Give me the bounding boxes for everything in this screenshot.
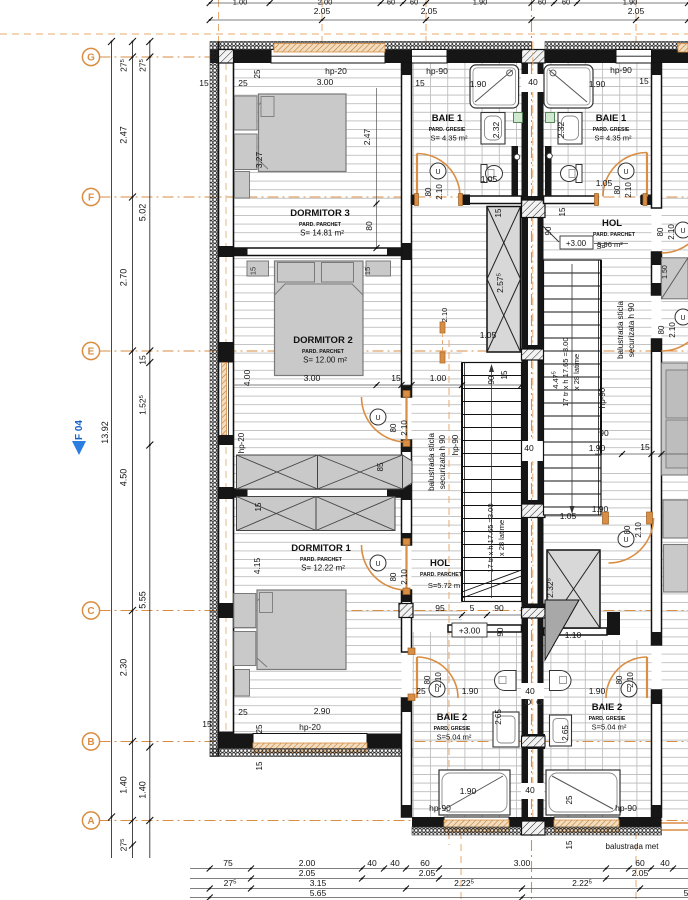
tick inner: [146, 817, 153, 824]
axis line B: [100, 741, 688, 743]
svg-text:F: F: [88, 193, 94, 204]
svg-text:x 28 latime: x 28 latime: [497, 520, 506, 556]
axis line A: [100, 820, 688, 822]
axis line F: [100, 196, 688, 198]
wall left cap mid: [219, 603, 234, 618]
wall top core right unit: [545, 50, 688, 64]
svg-text:U: U: [435, 169, 440, 176]
door dormitor 1: [362, 545, 407, 590]
furniture right lower: [663, 500, 688, 538]
wall cap left unit d2b: [402, 440, 412, 452]
svg-text:40: 40: [660, 858, 670, 868]
svg-text:3.00: 3.00: [317, 77, 334, 87]
door handle circle dormitor 2: [370, 409, 386, 425]
svg-text:DORMITOR 2: DORMITOR 2: [293, 335, 352, 346]
label hol right: [593, 218, 636, 249]
svg-text:PARD. GRESIE: PARD. GRESIE: [429, 127, 466, 133]
door baie1 right: [603, 153, 647, 197]
svg-text:1.90: 1.90: [470, 79, 487, 89]
wall cap left unit p1: [402, 243, 412, 260]
label baie 2 left: [434, 712, 472, 742]
wall baie1 right south: [544, 196, 652, 204]
floor baie 1 right: [544, 63, 652, 196]
svg-text:C: C: [87, 606, 94, 617]
svg-text:2.70: 2.70: [119, 269, 129, 287]
svg-text:15: 15: [640, 442, 650, 452]
wall baie2 south core: [412, 817, 662, 827]
tick top0: [207, 0, 213, 6]
svg-text:U: U: [623, 537, 628, 544]
label +3.00 right: [560, 236, 605, 251]
floor landing right lower: [544, 515, 602, 550]
party wall hatch b: [522, 349, 546, 360]
party wall junction band d: [522, 604, 546, 619]
svg-text:1.05: 1.05: [481, 174, 498, 184]
tick bot1: [436, 876, 442, 882]
void right triangle: [545, 600, 579, 660]
window hp-20 top lines: [271, 55, 385, 57]
svg-text:PARD. PARCHET: PARD. PARCHET: [300, 557, 343, 563]
wall partition d3 d2: [234, 248, 402, 256]
svg-text:60: 60: [538, 0, 546, 7]
svg-text:PARD. GRESIE: PARD. GRESIE: [434, 726, 471, 732]
svg-text:hp-90: hp-90: [598, 387, 607, 408]
axis line vertical center: [531, 0, 533, 900]
svg-text:60: 60: [410, 0, 418, 7]
wall bottom left insulation: [210, 749, 412, 757]
svg-text:80: 80: [364, 221, 374, 231]
svg-text:S=: S=: [597, 244, 606, 251]
tick bot0: [436, 866, 442, 872]
bathtub baie2 left: [439, 770, 510, 815]
cap baie2R north: [607, 612, 620, 635]
top dim line row1: [210, 19, 688, 21]
svg-text:BAIE 2: BAIE 2: [592, 702, 623, 713]
door labels baie1 right: [613, 182, 633, 198]
tick inner: [146, 54, 153, 61]
wardrobe row1 end: [403, 455, 413, 489]
svg-text:90: 90: [494, 603, 504, 613]
wall baie2 south insulation: [412, 827, 662, 835]
svg-text:U: U: [680, 228, 685, 235]
grid bubble E: [82, 342, 99, 359]
stair left break: [462, 570, 522, 598]
svg-text:5.02: 5.02: [138, 204, 148, 222]
cap p2 right: [387, 489, 402, 497]
svg-text:1.40: 1.40: [119, 776, 129, 794]
grid bubble G: [82, 48, 99, 65]
washbasin baie1 right: [558, 113, 582, 145]
tick bot2: [637, 886, 643, 892]
floor right rooms lower: [662, 468, 688, 818]
svg-text:B: B: [87, 737, 94, 748]
tick mid: [129, 38, 136, 45]
wall left corner top column: [219, 50, 234, 64]
svg-text:BAIE 2: BAIE 2: [437, 712, 468, 723]
wall bottom left core: [234, 734, 413, 749]
party wall junction band c: [522, 500, 546, 518]
svg-text:HOL: HOL: [602, 218, 622, 229]
sink baie2 right: [550, 715, 572, 746]
door handle circle dormitor 1: [370, 555, 386, 571]
svg-text:90: 90: [599, 428, 609, 438]
svg-text:17 tr x h 17.65 =3.00: 17 tr x h 17.65 =3.00: [561, 337, 570, 406]
svg-text:1.90: 1.90: [589, 686, 606, 696]
door stop circle left: [514, 154, 520, 160]
party wall left slab: [522, 63, 529, 835]
wall baie2 left north: [448, 625, 522, 632]
tick mid: [129, 348, 136, 355]
wall cap right unit g: [652, 632, 662, 645]
tick top1: [685, 17, 688, 23]
door frames dormitor 2: [403, 391, 410, 447]
svg-text:U: U: [375, 561, 380, 568]
stair left unit: [462, 363, 522, 602]
svg-text:2.05: 2.05: [314, 6, 331, 16]
tick bot0: [403, 866, 409, 872]
svg-text:hp-90: hp-90: [615, 803, 637, 813]
shower baie1 left: [470, 65, 519, 108]
door stop circle baie2 right: [537, 699, 542, 704]
label baie 1 left: [429, 113, 468, 143]
svg-text:15: 15: [255, 761, 264, 770]
toilet baie1 right: [561, 165, 583, 183]
balustrada text right: [598, 301, 636, 409]
svg-text:80: 80: [615, 675, 624, 684]
svg-text:2.32: 2.32: [556, 121, 566, 138]
svg-text:balustrada sticla: balustrada sticla: [427, 433, 436, 491]
party wall center line: [532, 42, 534, 836]
wall cap right unit b: [652, 283, 662, 295]
svg-text:A: A: [87, 816, 94, 827]
svg-text:1.90: 1.90: [589, 79, 606, 89]
svg-text:3.00: 3.00: [514, 858, 531, 868]
cap p1 left: [234, 248, 248, 256]
svg-text:2.10: 2.10: [668, 322, 677, 338]
wall interior vertical right unit: [652, 63, 662, 817]
tick inner: [146, 359, 153, 366]
svg-text:1.00: 1.00: [430, 373, 447, 383]
svg-text:securizata h 90: securizata h 90: [627, 302, 636, 357]
floor landing left: [412, 207, 488, 353]
grid bubble F: [82, 188, 99, 205]
grid bubble B: [82, 733, 99, 750]
svg-text:75: 75: [223, 858, 233, 868]
label baie 2 right: [589, 702, 627, 732]
svg-text:17 tr x h 17.65 =3.00: 17 tr x h 17.65 =3.00: [486, 503, 495, 572]
door labels right c: [623, 522, 643, 538]
grid bubble A: [82, 812, 99, 829]
wall cap left unit d1b: [402, 590, 412, 602]
label hol left: [420, 558, 463, 590]
svg-text:2.10: 2.10: [626, 672, 635, 688]
tick bot1: [603, 876, 609, 882]
left dim line outer: [111, 42, 113, 859]
svg-text:2.90: 2.90: [314, 706, 331, 716]
wall left core centerline: [225, 63, 227, 732]
wall cap left unit bot: [402, 805, 412, 817]
tick top1: [423, 17, 429, 23]
tick mid: [129, 817, 136, 824]
svg-text:15: 15: [391, 373, 401, 383]
tick top0: [551, 0, 557, 6]
wall baie1 left south: [412, 196, 522, 204]
axis line vertical left stub: [448, 340, 450, 845]
svg-text:1.90: 1.90: [460, 786, 477, 796]
svg-text:E: E: [88, 347, 95, 358]
svg-text:25: 25: [238, 707, 248, 717]
svg-text:80: 80: [389, 572, 398, 581]
svg-text:5.65: 5.65: [310, 888, 327, 898]
svg-text:2.05: 2.05: [419, 868, 436, 878]
door frame hol left a: [440, 322, 445, 333]
svg-text:2.00: 2.00: [299, 858, 316, 868]
bed dormitor 1: [234, 590, 346, 670]
wall cap left unit b2a: [402, 698, 412, 712]
svg-text:15: 15: [500, 370, 509, 379]
svg-text:60: 60: [562, 0, 570, 7]
door handle circle right b: [675, 309, 688, 325]
svg-text:2.10: 2.10: [440, 308, 449, 323]
svg-text:15: 15: [138, 355, 148, 365]
door baie1 left: [417, 154, 460, 197]
door handle circle baie 2 right: [621, 681, 637, 697]
svg-text:hp-90: hp-90: [451, 434, 460, 455]
wall cap left unit p2: [402, 485, 412, 500]
door labels right b: [657, 322, 677, 338]
bathtub baie2 right: [546, 770, 620, 815]
grid bubble C: [82, 602, 99, 619]
door labels dormitor 2: [389, 420, 409, 436]
window hp-20 top opening: [271, 50, 385, 64]
svg-text:U: U: [623, 169, 628, 176]
tick top0: [685, 0, 688, 6]
dim line mid right: [595, 451, 688, 457]
svg-text:40: 40: [367, 858, 377, 868]
door frames right corridor: [603, 512, 653, 524]
dim line interior d3: [376, 88, 378, 248]
party wall dim gap c: [521, 783, 544, 799]
window hp-20 bottom opening: [253, 734, 367, 749]
door frames dormitor 1: [403, 539, 410, 595]
floor hol left: [412, 352, 463, 625]
svg-text:PARD. PARCHET: PARD. PARCHET: [420, 572, 463, 578]
party wall dim gap a: [521, 441, 544, 461]
cap p1 right: [387, 248, 402, 256]
svg-text:2.47: 2.47: [119, 126, 129, 144]
window hp-90 baie1 right opening: [616, 50, 652, 64]
washbasin baie1 left: [481, 113, 505, 145]
door labels dormitor 1: [389, 569, 409, 585]
floor dormitor 1: [234, 497, 402, 734]
door right unit a: [662, 208, 688, 253]
party wall hatch e: [522, 821, 546, 835]
svg-text:15: 15: [415, 78, 425, 88]
svg-text:1.50: 1.50: [662, 265, 669, 279]
window left hp-90 orange band: [222, 363, 227, 436]
svg-text:securizata h 90: securizata h 90: [438, 434, 447, 489]
column top center hatch: [522, 50, 546, 64]
svg-text:hp-90: hp-90: [426, 66, 448, 76]
party wall right slab: [538, 63, 544, 835]
svg-text:S=5.04 m²: S=5.04 m²: [437, 733, 472, 742]
tick mid: [129, 54, 136, 61]
tick inner: [146, 744, 153, 751]
strike 5.96: [594, 243, 628, 245]
tick bot3: [519, 895, 525, 900]
tick top0: [267, 0, 273, 6]
svg-text:1.05: 1.05: [480, 330, 497, 340]
balustrade left: [461, 363, 463, 602]
tick bot3: [207, 895, 213, 900]
svg-text:60: 60: [420, 858, 430, 868]
toilet baie1 left: [481, 165, 503, 183]
svg-text:25: 25: [565, 795, 574, 804]
svg-text:1.05: 1.05: [560, 511, 577, 521]
svg-text:80: 80: [613, 185, 622, 194]
mirror green left: [514, 113, 523, 123]
svg-text:2.30: 2.30: [119, 659, 129, 677]
svg-text:hp-90: hp-90: [610, 65, 632, 75]
left dim line inner: [149, 42, 151, 859]
svg-text:60: 60: [387, 0, 395, 7]
tick top1: [633, 17, 639, 23]
svg-text:HOL: HOL: [430, 558, 450, 569]
terrace balustrade metal: [662, 823, 688, 830]
axis stub x218: [218, 0, 220, 49]
bot dim line row0: [190, 868, 688, 870]
wall left partition junction 1: [219, 246, 234, 257]
bot dim line row3: [190, 897, 688, 899]
toilet baie2 left: [495, 671, 517, 691]
door frame baie1 left a: [415, 194, 419, 206]
tick top0: [400, 0, 406, 6]
svg-text:90: 90: [487, 375, 496, 384]
door stop circle right: [547, 153, 553, 159]
party wall hatch c: [522, 504, 546, 518]
floor landing right: [544, 207, 602, 261]
svg-text:5: 5: [684, 888, 688, 898]
svg-text:15: 15: [254, 502, 263, 511]
svg-text:15: 15: [494, 208, 503, 217]
svg-text:2.05: 2.05: [299, 868, 316, 878]
tick bot1: [248, 876, 254, 882]
svg-text:25: 25: [253, 69, 262, 78]
svg-text:2.05: 2.05: [628, 6, 645, 16]
svg-text:PARD. GRESIE: PARD. GRESIE: [589, 716, 626, 722]
party wall hatch a: [522, 200, 546, 218]
svg-text:2.10: 2.10: [634, 522, 643, 538]
window hp-90 baie2 right sill: [554, 820, 619, 832]
tick d3 a: [374, 201, 380, 207]
svg-text:PARD. PARCHET: PARD. PARCHET: [299, 222, 342, 228]
wall interior vertical left unit: [402, 63, 412, 817]
svg-text:2.05: 2.05: [421, 6, 438, 16]
tick bot2: [519, 886, 525, 892]
furniture right bottom: [664, 545, 688, 593]
door frame baie1 left b: [459, 194, 463, 206]
party wall hatch f: [522, 734, 546, 749]
window hp-90 baie2 left opening: [444, 817, 509, 827]
leader hol right: [543, 226, 559, 242]
tick mid: [129, 738, 136, 745]
svg-text:15: 15: [249, 267, 258, 275]
balustrada text left: [427, 433, 460, 491]
svg-text:15: 15: [565, 840, 574, 849]
svg-text:4.15: 4.15: [252, 557, 262, 574]
door labels baie 2 right: [615, 672, 635, 688]
svg-text:4.50: 4.50: [119, 469, 129, 487]
stair text right: [551, 337, 581, 406]
svg-text:2.10: 2.10: [434, 672, 443, 688]
svg-text:U: U: [680, 315, 685, 322]
svg-text:1.00: 1.00: [233, 0, 248, 7]
wall left partition junction 2: [219, 487, 234, 499]
svg-text:4.00: 4.00: [242, 369, 252, 386]
axis stub x461 bottom: [460, 820, 462, 900]
svg-text:25: 25: [255, 724, 264, 733]
dresser dormitor 3: [235, 172, 250, 199]
door frames baie 2 left: [408, 648, 415, 701]
svg-text:hp-90: hp-90: [429, 803, 451, 813]
svg-text:15: 15: [639, 76, 649, 86]
svg-text:40: 40: [528, 77, 538, 87]
sink baie2 left: [493, 712, 519, 747]
svg-text:1.90: 1.90: [589, 443, 606, 453]
svg-text:DORMITOR 1: DORMITOR 1: [291, 543, 351, 554]
svg-text:15: 15: [202, 719, 212, 729]
tick bot0: [648, 866, 654, 872]
window hp-90 baie1 right line: [616, 55, 652, 57]
svg-text:80: 80: [389, 423, 398, 432]
svg-text:95: 95: [435, 603, 445, 613]
dim row inside d2: [234, 382, 525, 388]
dim 15 25 bottom left: [202, 707, 264, 770]
tick mid: [129, 194, 136, 201]
cap baie1L south b: [460, 195, 470, 206]
tick bot0: [359, 866, 365, 872]
svg-text:5: 5: [470, 603, 475, 613]
balustrade right corridor: [600, 260, 602, 455]
svg-text:15: 15: [558, 207, 567, 216]
svg-text:25: 25: [238, 78, 248, 88]
wall left face outer: [218, 42, 220, 757]
bed dormitor 2: [247, 261, 391, 376]
svg-text:balustrada sticla: balustrada sticla: [616, 301, 625, 359]
stair text left: [486, 503, 506, 572]
svg-text:80: 80: [424, 187, 433, 196]
svg-text:hp-20: hp-20: [325, 66, 347, 76]
wall left insulation: [210, 50, 219, 757]
svg-text:S= 12.00 m²: S= 12.00 m²: [303, 356, 347, 365]
door labels baie1 left: [424, 184, 444, 200]
tick top1: [319, 17, 325, 23]
top dim line row0: [210, 2, 688, 4]
svg-text:90: 90: [496, 627, 505, 636]
svg-text:3.00: 3.00: [304, 373, 321, 383]
door labels baie 2 left: [423, 672, 443, 688]
axis stub x636 bottom: [635, 820, 637, 900]
tick mid: [129, 842, 136, 849]
party wall junction band b: [522, 345, 546, 360]
floor dormitor 3: [234, 63, 402, 248]
mirror green right: [546, 113, 555, 123]
window hp-90 baie2 left sill: [444, 820, 509, 832]
svg-text:40: 40: [524, 443, 534, 453]
wall cap right unit c: [652, 339, 662, 352]
svg-text:PARD. PARCHET: PARD. PARCHET: [302, 349, 345, 355]
tick bot0: [626, 866, 632, 872]
